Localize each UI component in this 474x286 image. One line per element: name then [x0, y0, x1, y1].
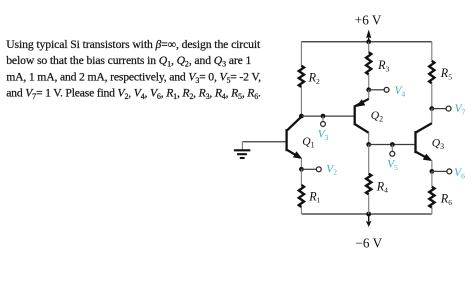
svg-text:Using typical Si transistors w: Using typical Si transistors with β=∞, d…	[6, 38, 261, 51]
svg-text:below so that the bias current: below so that the bias currents in Q1, Q…	[6, 54, 251, 69]
svg-text:−6 V: −6 V	[356, 236, 383, 251]
svg-text:mA, 1 mA, and 2 mA, respective: mA, 1 mA, and 2 mA, respectively, and V3…	[6, 70, 261, 85]
svg-text:+6 V: +6 V	[355, 13, 382, 28]
